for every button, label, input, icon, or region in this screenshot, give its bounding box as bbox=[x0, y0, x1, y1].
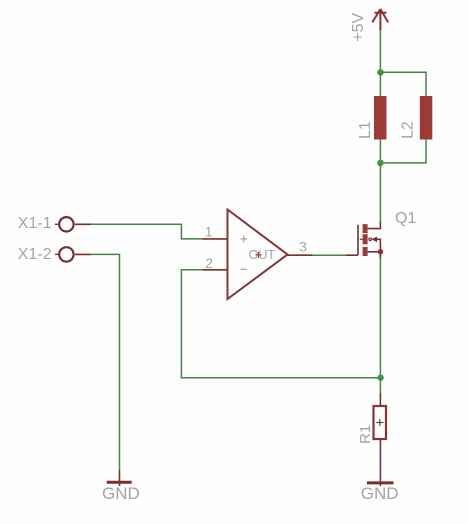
inductor L1 bbox=[374, 96, 387, 140]
U1 plus input marker bbox=[240, 236, 247, 243]
X1-1 left tick bbox=[55, 223, 59, 225]
R1 body bbox=[374, 406, 387, 439]
U1 pin 3 stub bbox=[288, 254, 313, 256]
inductor L2 bbox=[420, 96, 433, 140]
resistor R1 bbox=[374, 393, 387, 452]
Q1 bulk circle bbox=[369, 238, 372, 241]
Q1 channel bar top bbox=[363, 224, 368, 233]
GND left bar bbox=[107, 481, 132, 484]
svg-text:L2: L2 bbox=[400, 121, 417, 139]
X1-2 left tick bbox=[55, 253, 59, 255]
wire +5V to node N1 bbox=[379, 30, 381, 72]
X1-1 pin stub bbox=[75, 223, 91, 225]
wire N1 to L1 bbox=[379, 72, 381, 96]
X1-2 circle bbox=[59, 247, 73, 261]
R1 bottom pin bbox=[379, 439, 381, 452]
Q1 bulk wire bbox=[377, 239, 380, 252]
svg-text:L1: L1 bbox=[357, 121, 374, 139]
op-amp U1 bbox=[202, 210, 312, 300]
X1-1 circle bbox=[59, 217, 73, 231]
GND right bar bbox=[367, 481, 394, 484]
wire X1-2 to ground bbox=[91, 254, 120, 470]
U1 pin 2 stub bbox=[202, 269, 227, 271]
Q1 channel bar bottom bbox=[363, 247, 368, 256]
ground GND right bbox=[367, 452, 394, 486]
svg-text:Q1: Q1 bbox=[395, 210, 416, 227]
svg-text:R1: R1 bbox=[357, 425, 374, 444]
Q1 source pin bbox=[368, 252, 381, 258]
connector pin X1-2 bbox=[55, 247, 91, 261]
wire X1-1 to U1 pin 1 bbox=[91, 224, 202, 239]
U1 origin cross bbox=[255, 252, 261, 258]
svg-text:3: 3 bbox=[299, 238, 307, 254]
node N3 junction bbox=[377, 375, 383, 381]
Q1 drain pin bend bbox=[368, 222, 381, 229]
node N2 junction bbox=[377, 160, 384, 167]
U1 pin 1 stub bbox=[202, 238, 227, 240]
node N1 junction bbox=[377, 69, 384, 76]
wire U1 pin 2 feedback bbox=[181, 270, 380, 378]
wire Q1 source to node N3 bbox=[379, 258, 381, 378]
Q1 source junction dot bbox=[378, 249, 384, 255]
supply symbol +5V bbox=[372, 9, 388, 30]
svg-text:X1-1: X1-1 bbox=[18, 215, 52, 232]
svg-text:2: 2 bbox=[205, 255, 213, 271]
wire N3 to R1 bbox=[379, 378, 381, 393]
svg-text:+5V: +5V bbox=[350, 13, 367, 42]
U1 minus input marker bbox=[240, 268, 247, 270]
R1 origin cross bbox=[376, 419, 383, 426]
svg-text:OUT: OUT bbox=[249, 248, 276, 262]
transistor Q1 bbox=[345, 222, 383, 258]
wire N2 to Q1 drain bbox=[379, 163, 381, 222]
Q1 gate line bbox=[357, 225, 359, 255]
svg-text:GND: GND bbox=[102, 484, 140, 503]
connector pin X1-1 bbox=[55, 217, 91, 231]
wire L2 bottom to node N2 bbox=[380, 140, 426, 163]
svg-text:1: 1 bbox=[205, 224, 213, 240]
ground GND left bbox=[107, 470, 132, 486]
GND right pin bbox=[379, 452, 381, 486]
wire U1 out to Q1 gate bbox=[313, 254, 346, 256]
Q1 origin tick bbox=[360, 238, 363, 240]
R1 top pin bbox=[379, 393, 381, 406]
wire N1 to L2 top bbox=[380, 72, 426, 96]
Q1 bulk arrow bbox=[371, 237, 377, 243]
svg-text:GND: GND bbox=[361, 484, 399, 503]
Q1 gate pin bbox=[345, 254, 358, 256]
U1 triangle body bbox=[228, 210, 288, 300]
wire L1 to node N2 bbox=[379, 140, 381, 163]
Q1 channel bar middle bbox=[363, 234, 368, 244]
svg-text:X1-2: X1-2 bbox=[18, 246, 52, 263]
GND left pin bbox=[119, 470, 121, 486]
X1-2 pin stub bbox=[75, 253, 91, 255]
